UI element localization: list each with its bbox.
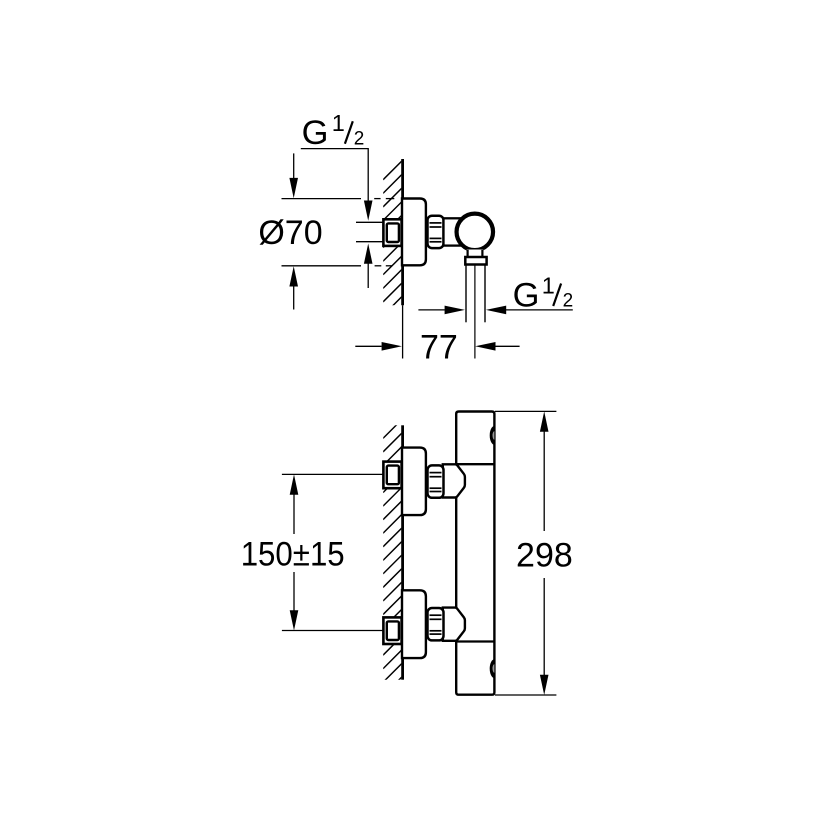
dimension 150±15 extension lines (282, 473, 384, 475)
dimension Ø70 extension lines (282, 198, 362, 200)
coupling block (top view) (444, 218, 460, 245)
svg-text:Ø70: Ø70 (258, 214, 322, 252)
leader G 1/2 (top) (301, 149, 368, 201)
upper hex nut (428, 465, 444, 497)
svg-text:77: 77 (420, 328, 458, 366)
upper square union nut (383, 462, 401, 489)
dimension 77 (355, 345, 381, 347)
hose collar (465, 257, 486, 265)
svg-text:1: 1 (542, 273, 555, 299)
lower escutcheon flange (402, 590, 426, 658)
svg-text:2: 2 (563, 291, 574, 312)
valve body circle (top view) (457, 214, 494, 251)
wall line (top view) (401, 159, 404, 305)
hose center line (474, 266, 476, 359)
dimension G 1/2 (hose) arrows (418, 309, 444, 311)
hex union nut (top view) (428, 216, 444, 248)
upper connection block (443, 464, 465, 497)
svg-text:G: G (513, 276, 540, 314)
body divider bottom cap (456, 640, 494, 642)
dimension Ø70 arrows (293, 153, 295, 179)
upper escutcheon flange (402, 448, 426, 515)
dimension 150±15 arrows (290, 474, 299, 494)
pipe stub behind wall (356, 221, 384, 223)
lower connection block (443, 608, 465, 641)
G 1/2 pipe lower arrow (364, 244, 373, 264)
wall extension line down to 77 dimension (402, 305, 404, 358)
square union nut behind wall (top view) (383, 219, 401, 246)
body divider top cap (456, 463, 494, 465)
lower pivot ellipse on body edge (490, 659, 495, 678)
upper pivot ellipse on body edge (490, 426, 495, 445)
svg-text:298: 298 (516, 536, 573, 574)
dimension 298 extension lines (495, 410, 556, 412)
wall hatch (bottom view) (383, 420, 402, 696)
hose outer lines (465, 265, 467, 323)
hose neck below circle (467, 250, 484, 258)
wall hatch (top view) (383, 161, 402, 316)
escutcheon flange (top view) (402, 199, 426, 266)
thermostat body outline (456, 412, 494, 695)
svg-text:2: 2 (354, 128, 365, 149)
wall line segments (bottom view) (401, 425, 404, 447)
lower hex nut (428, 608, 444, 640)
svg-text:150±15: 150±15 (241, 535, 345, 573)
svg-text:1: 1 (332, 110, 345, 136)
svg-text:G: G (302, 114, 329, 152)
lower square union nut (383, 617, 401, 644)
dimension 298 arrows (540, 411, 549, 431)
